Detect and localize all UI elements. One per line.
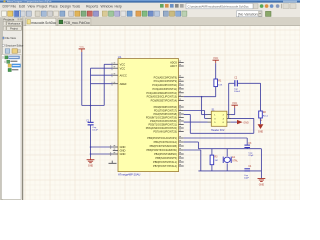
IC left pins	[113, 63, 118, 65]
svg-text:GND: GND	[258, 130, 264, 133]
svg-text:GND: GND	[259, 183, 265, 186]
active tab mcucode.SchDoc	[26, 18, 56, 26]
no-connect mark	[109, 161, 117, 164]
wire rail left feeds	[184, 141, 199, 143]
wire reset down to header	[201, 97, 203, 115]
svg-text:Window: Window	[101, 5, 114, 9]
svg-text:PD7(AIN1/PCINT23): PD7(AIN1/PCINT23)	[153, 130, 177, 134]
wire cap branch vertical	[228, 83, 230, 118]
svg-text:Structure Editor: Structure Editor	[5, 44, 23, 48]
svg-text:Project: Project	[10, 27, 18, 30]
wire AVCC	[91, 74, 113, 76]
op IC U1 ATmega48	[118, 59, 179, 172]
wire xtal rail bottom	[198, 170, 261, 172]
svg-text:PD4(T0/XCK/PCINT20): PD4(T0/XCK/PCINT20)	[150, 119, 177, 123]
left panel	[0, 18, 24, 200]
svg-text:PD0(RXD/PCINT16): PD0(RXD/PCINT16)	[154, 105, 177, 109]
svg-text:C:\projects\AVR\mcuboard\Sch\m: C:\projects\AVR\mcuboard\Sch\mcucode.Sch…	[188, 4, 250, 8]
wire horizontal to cap node	[82, 105, 104, 107]
svg-text:PC3(ADC3/PCINT11): PC3(ADC3/PCINT11)	[152, 87, 177, 91]
svg-text:PB6(PCINT6/XTAL1): PB6(PCINT6/XTAL1)	[153, 160, 177, 164]
svg-text:Reports: Reports	[86, 5, 99, 9]
svg-text:PC5(ADC5/SCL/PCINT13): PC5(ADC5/SCL/PCINT13)	[147, 95, 177, 99]
junction reset	[201, 96, 203, 98]
svg-text:VCC: VCC	[120, 66, 126, 70]
capacitor C1	[88, 122, 94, 123]
panel mini toolbar	[5, 49, 10, 53]
svg-text:ADC7: ADC7	[170, 64, 177, 68]
capacitor C2	[229, 82, 235, 84]
title bar	[0, 0, 300, 3]
wire bypass vertical	[90, 68, 92, 157]
svg-text:PCB_mcu.PcbDoc: PCB_mcu.PcbDoc	[64, 21, 91, 25]
svg-text:File View: File View	[5, 36, 16, 40]
tab strip over schematic	[24, 18, 301, 26]
svg-text:Project: Project	[37, 5, 48, 9]
ground GND left	[90, 158, 92, 160]
project tree list	[1, 54, 21, 199]
svg-text:VCC: VCC	[213, 57, 218, 60]
wire PD1 to header	[184, 110, 205, 112]
svg-text:PB7(PCINT7/XTAL2): PB7(PCINT7/XTAL2)	[153, 164, 177, 168]
junction	[90, 105, 92, 107]
svg-text:mcucode.SchDoc: mcucode.SchDoc	[31, 21, 56, 25]
svg-text:View: View	[28, 5, 36, 9]
menu bar	[0, 3, 300, 10]
svg-text:ADC6: ADC6	[170, 61, 177, 65]
wire cap to R2	[238, 82, 261, 84]
svg-text:PC0(ADC0/PCINT8): PC0(ADC0/PCINT8)	[154, 75, 177, 79]
wire VCC to R1	[215, 63, 217, 79]
svg-text:0.1uF: 0.1uF	[92, 129, 98, 131]
svg-text:[No Variations]: [No Variations]	[238, 12, 260, 16]
svg-text:22pF: 22pF	[248, 155, 254, 157]
wire PD3 to header row3	[184, 121, 208, 123]
svg-text:GND: GND	[120, 152, 126, 156]
toolbar	[0, 10, 300, 18]
pin cross marks	[109, 145, 113, 156]
power port GND arrow header	[231, 121, 237, 123]
svg-text:PC6(RESET/PCINT14): PC6(RESET/PCINT14)	[151, 99, 177, 103]
svg-text:VCC: VCC	[120, 63, 126, 67]
project button	[3, 26, 6, 30]
ground GND xtal	[258, 178, 266, 180]
wire GND pin3	[91, 153, 113, 155]
svg-text:Design: Design	[60, 5, 71, 9]
wire AREF	[91, 83, 113, 85]
junction dots	[90, 146, 92, 148]
resistor R1	[214, 79, 218, 87]
svg-text:1M: 1M	[215, 160, 218, 162]
IC right pins	[179, 62, 184, 64]
resistor R3	[211, 149, 213, 155]
svg-text:PD6(AIN0/OC0A/PCINT22): PD6(AIN0/OC0A/PCINT22)	[146, 126, 177, 130]
svg-text:Workspace: Workspace	[8, 22, 21, 25]
crystal Y1	[226, 149, 228, 157]
svg-text:PC1(ADC1/PCINT9): PC1(ADC1/PCINT9)	[154, 79, 177, 83]
svg-text:PC2(ADC2/PCINT10): PC2(ADC2/PCINT10)	[152, 83, 177, 87]
svg-text:VCC: VCC	[232, 102, 237, 105]
svg-text:22pF: 22pF	[244, 177, 250, 179]
svg-text:10K: 10K	[218, 84, 222, 86]
svg-text:GND: GND	[120, 145, 126, 149]
svg-text:PB1(PCINT1/OC1A): PB1(PCINT1/OC1A)	[154, 140, 177, 144]
svg-text:PD1(TXD/PCINT17): PD1(TXD/PCINT17)	[154, 109, 177, 113]
svg-text:GND: GND	[88, 165, 94, 168]
resistor R2	[259, 111, 263, 118]
wire rail right down	[260, 149, 262, 179]
svg-text:XTAL: XTAL	[232, 159, 238, 162]
wire MISO loop	[184, 114, 191, 116]
svg-text:Header 3X2: Header 3X2	[211, 129, 225, 132]
svg-text:Res1: Res1	[263, 115, 269, 117]
wire GND pin1	[91, 146, 113, 148]
svg-text:PB0(PCINT0/CLKO/ICP1): PB0(PCINT0/CLKO/ICP1)	[147, 136, 177, 140]
svg-text:GND: GND	[243, 121, 249, 124]
svg-text:PC4(ADC4/SDA/PCINT12): PC4(ADC4/SDA/PCINT12)	[146, 91, 177, 95]
radio file view	[2, 37, 4, 39]
svg-text:PB3(PCINT3/OC2A/MOSI): PB3(PCINT3/OC2A/MOSI)	[146, 148, 177, 152]
capacitor C4	[244, 168, 250, 169]
svg-text:Place: Place	[49, 5, 58, 9]
wire VCC pin1	[104, 63, 113, 65]
wire R1 to reset	[215, 87, 217, 97]
svg-text:Tools: Tools	[72, 5, 80, 9]
svg-text:ATmega48P-20AU: ATmega48P-20AU	[118, 172, 140, 176]
connector S1 header	[211, 111, 227, 126]
wire VCC pin2	[91, 67, 113, 69]
svg-text:GND: GND	[120, 149, 126, 153]
wire vertical to VCC pin	[103, 64, 105, 105]
svg-text:PB4(PCINT4/MISO): PB4(PCINT4/MISO)	[154, 152, 177, 156]
wire R2 to gnd	[260, 118, 262, 124]
svg-text:VCC: VCC	[79, 47, 84, 49]
wire VCC vertical	[81, 52, 83, 106]
workspace button	[3, 21, 6, 25]
svg-text:PB5(SCK/PCINT5): PB5(SCK/PCINT5)	[155, 156, 177, 160]
power port GND arrow down	[258, 124, 264, 129]
capacitor C3	[246, 138, 248, 145]
svg-text:PD3(INT1/OC2B/PCINT19): PD3(INT1/OC2B/PCINT19)	[146, 116, 177, 120]
radio structure editor	[2, 44, 4, 46]
wire reset horizontal	[184, 96, 216, 98]
schematic sheet	[24, 26, 301, 200]
svg-text:PD5(T1/OC0B/PCINT21): PD5(T1/OC0B/PCINT21)	[148, 123, 177, 127]
svg-text:DXP: DXP	[3, 5, 11, 9]
svg-text:U1: U1	[118, 55, 122, 59]
svg-text:Edit: Edit	[19, 5, 25, 9]
svg-text:Help: Help	[115, 5, 122, 9]
panel header Projects	[3, 18, 23, 22]
tab PCB_mcu.PcbDoc	[58, 19, 91, 26]
svg-text:PD2(INT0/PCINT18): PD2(INT0/PCINT18)	[154, 112, 178, 116]
wire xtal rail top	[198, 148, 261, 150]
svg-text:PB2(PCINT2/SS/OC1B): PB2(PCINT2/SS/OC1B)	[150, 144, 177, 148]
svg-text:100nF: 100nF	[234, 91, 241, 93]
svg-text:File: File	[11, 5, 17, 9]
svg-text:AVCC: AVCC	[120, 73, 127, 77]
wire xtal feed top	[184, 137, 248, 139]
svg-text:AREF: AREF	[120, 82, 127, 86]
